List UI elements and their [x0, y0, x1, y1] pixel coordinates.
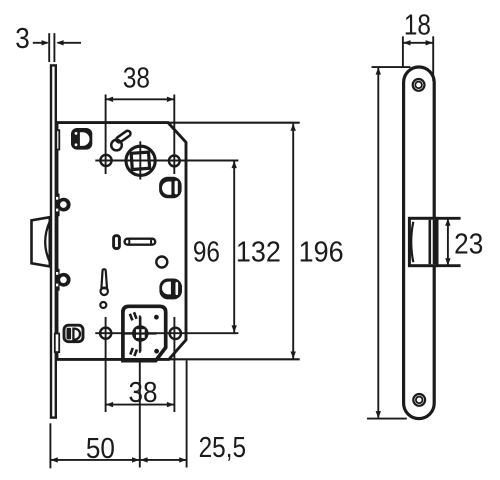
- faceplate screw hole bottom outer: [413, 394, 425, 406]
- capsule pin right end cap: [150, 239, 153, 245]
- svg-text:196: 196: [299, 236, 344, 268]
- teardrop pin bottom circle: [101, 288, 108, 295]
- magnet housing bottom: [123, 306, 166, 360]
- magnet pole upper (tilted, two bars): [129, 312, 138, 321]
- dimension 132 line and arrows: [292, 124, 294, 359]
- faceplate screw hole top outer: [413, 79, 425, 91]
- dimension 38 bottom line and arrows: [106, 404, 174, 406]
- small vertical pill: [114, 236, 120, 249]
- capsule pin left end cap: [128, 239, 131, 245]
- horizontal capsule pin: [125, 239, 156, 245]
- vertical centerline right screw hole top: [173, 95, 175, 175]
- svg-text:23: 23: [454, 227, 483, 260]
- hook clip on left edge lower: [56, 269, 71, 291]
- vertical centerline bottom-left screw hole: [105, 317, 107, 412]
- extension line from follower centre to bottom dims: [139, 361, 141, 468]
- latch bolt front window: [409, 218, 437, 265]
- magnet pole lower (tilted, two bars): [129, 347, 138, 356]
- faceplate right edge through window: [433, 220, 436, 264]
- screw hole bottom-left: [100, 328, 111, 339]
- latch bolt front inner edge: [428, 220, 431, 264]
- faceplate screw hole top inner: [415, 82, 422, 89]
- spring clip right-middle (filled, D hole left, slot right): [159, 177, 182, 199]
- centerline row through handle follower: [95, 160, 238, 162]
- bean shaped slot (circle end): [111, 140, 122, 151]
- svg-text:18: 18: [404, 8, 431, 40]
- vertical centerline follower: [139, 141, 141, 179]
- svg-text:96: 96: [193, 236, 220, 268]
- extension line from body right edge to bottom dims: [186, 361, 188, 468]
- handle follower circle: [126, 146, 155, 175]
- screw hole top-left: [100, 155, 111, 166]
- dimension 23 extension lines: [438, 217, 461, 220]
- small ring below teardrop: [100, 302, 106, 308]
- vertical centerline bottom follower: [139, 315, 141, 353]
- dimension 196 extension lines: [372, 66, 411, 68]
- rivet dot upper: [154, 315, 159, 320]
- dimension 18 extension lines: [402, 36, 404, 66]
- vertical centerline bottom-right screw hole: [173, 317, 175, 412]
- dimension 132 extension lines: [168, 122, 300, 124]
- lock body outline: [57, 123, 186, 360]
- dimension 3 extension lines: [48, 33, 50, 62]
- spring clip upper-left (filled with white D hole): [71, 128, 92, 150]
- small circle mid-right: [156, 257, 167, 268]
- faceplate front view (right): [404, 67, 435, 419]
- dimension 50 / 25,5 line and arrows: [51, 459, 187, 461]
- dimension 23 line and arrows: [447, 219, 449, 264]
- hook clip on left edge upper: [56, 194, 71, 217]
- centerline row through bottom follower: [95, 332, 238, 334]
- dimension 18 line and arrows: [403, 42, 433, 44]
- notch on left edge lower: [55, 334, 59, 353]
- screw hole bottom-right: [170, 328, 181, 339]
- faceplate screw hole bottom inner: [416, 397, 423, 404]
- vertical centerline left screw hole top: [105, 95, 107, 175]
- handle follower square spindle hole: [131, 152, 149, 169]
- bean shaped slot (capsule): [115, 130, 131, 144]
- svg-text:38: 38: [128, 376, 157, 409]
- spring clip bottom-left (outline, bar + D): [64, 325, 83, 342]
- bottom follower disc with white square hole and cross: [124, 317, 157, 352]
- dimension 38 top line and arrows: [106, 98, 174, 100]
- latch bolt face arc: [45, 222, 49, 262]
- notch on left edge upper: [56, 130, 59, 149]
- dimension 196 line and arrows: [377, 68, 379, 418]
- dimension 96 line and arrows: [233, 161, 235, 333]
- svg-text:50: 50: [86, 432, 115, 465]
- dimension 3 leader lines and arrows: [33, 42, 48, 44]
- svg-text:25,5: 25,5: [199, 431, 246, 463]
- latch bolt front face arc: [411, 222, 413, 262]
- rivet dot lower: [154, 349, 159, 354]
- teardrop pin: [101, 269, 107, 288]
- svg-text:38: 38: [123, 62, 150, 94]
- svg-text:3: 3: [15, 22, 30, 55]
- faceplate (edge view, thin vertical plate): [51, 65, 56, 417]
- screw hole top-right: [169, 156, 180, 167]
- latch bolt (side view, protruding left of faceplate): [32, 217, 50, 266]
- spring clip right-lower (filled, D hole left, slot right): [159, 279, 182, 300]
- svg-text:132: 132: [236, 236, 281, 268]
- extension line from faceplate left to bottom dims: [49, 423, 51, 468]
